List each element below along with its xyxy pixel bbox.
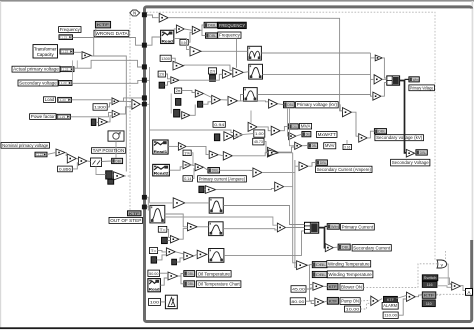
wire apv to grp5 bbox=[150, 130, 234, 133]
wire 0.94 to mult bbox=[188, 32, 192, 42]
wire tunnel t1 bbox=[147, 197, 150, 210]
wire wt tri out bbox=[307, 264, 312, 267]
multiply npv 1 bbox=[56, 149, 65, 156]
wire 2pi col down bbox=[170, 94, 172, 114]
wire pc tag out bbox=[220, 169, 253, 171]
wire converter vertical bbox=[370, 53, 372, 96]
svg-text:Primary current (Ampere): Primary current (Ampere) bbox=[199, 176, 246, 181]
winding temp tri bbox=[297, 261, 308, 270]
svg-text:DBL: DBL bbox=[209, 34, 216, 38]
label Oil Temperature bbox=[196, 271, 231, 277]
wire read chain down bbox=[149, 67, 151, 203]
local variable FREQUENCY inverted label bbox=[218, 22, 247, 28]
wire 45 to comp bbox=[306, 288, 313, 289]
svg-text:Secondary voltage (kV): Secondary voltage (kV) bbox=[376, 135, 423, 140]
wire increment long run bbox=[168, 18, 342, 111]
svg-text:1300: 1300 bbox=[94, 105, 107, 110]
local variable Oil Temperature Chart tag bbox=[184, 281, 195, 287]
comparator frequency check bbox=[82, 52, 91, 59]
constant dark t2 bbox=[151, 257, 157, 263]
constant f g bbox=[214, 134, 219, 141]
or alarm tri bbox=[371, 296, 379, 306]
constant 0.94 top bbox=[180, 39, 188, 45]
local variable MxWATT tag bbox=[302, 132, 311, 137]
wire 3.16 up bbox=[346, 140, 348, 144]
wire sec current in bbox=[295, 165, 299, 167]
svg-text:DBL: DBL bbox=[292, 125, 297, 129]
svg-text:Primary Current: Primary Current bbox=[342, 224, 374, 229]
indicator Secondary Current tag bbox=[338, 244, 350, 250]
constant 1.00 bbox=[254, 130, 265, 137]
label OUT OF STEP bbox=[109, 217, 143, 223]
wire switch to comp bbox=[438, 278, 452, 284]
local variable Switch ON bbox=[422, 275, 438, 281]
svg-text:Pump ON: Pump ON bbox=[341, 299, 359, 304]
waveform chart 3 bbox=[244, 88, 258, 102]
svg-text:DBL: DBL bbox=[316, 263, 326, 267]
svg-text:80.00: 80.00 bbox=[291, 300, 304, 304]
wire tri7 out bbox=[279, 152, 293, 154]
wire secondary voltage bbox=[72, 80, 143, 83]
wire comp2 to tag bbox=[324, 301, 327, 302]
wire pv mult to var bbox=[278, 104, 284, 105]
wire 1300 chain bbox=[171, 58, 175, 63]
multiply grp2 5 bbox=[224, 132, 234, 141]
multiply freq 2 bbox=[192, 26, 200, 34]
wire mult to FREQUENCY bbox=[200, 25, 204, 30]
svg-text:DBL: DBL bbox=[342, 246, 350, 250]
svg-text:N: N bbox=[133, 11, 136, 16]
svg-text:2π: 2π bbox=[159, 73, 164, 77]
current tri 6 bbox=[253, 168, 262, 177]
constant 110 dark bbox=[422, 300, 435, 307]
constant dark t3 bbox=[172, 259, 177, 265]
wire mva c1 bbox=[257, 127, 271, 131]
svg-text:1300: 1300 bbox=[161, 56, 170, 61]
wire bundle2 thick bbox=[319, 228, 326, 248]
wire tri3 to tag bbox=[204, 167, 208, 170]
wire tri4 out bbox=[278, 147, 295, 152]
wire mva tri3 out bbox=[280, 126, 288, 130]
svg-text:DBL: DBL bbox=[188, 282, 194, 286]
oil temp tri bbox=[168, 272, 178, 280]
increment box bbox=[106, 171, 113, 179]
svg-text:FREQUENCY: FREQUENCY bbox=[219, 23, 246, 28]
wire T= a bbox=[167, 229, 171, 237]
svg-text:A: A bbox=[468, 290, 471, 295]
local variable FREQUENCY tag bbox=[204, 22, 217, 28]
local variable Pump KTF tag bbox=[327, 297, 338, 304]
tunnel powe factor bbox=[142, 95, 147, 100]
wire 1.00 feed bbox=[243, 134, 254, 135]
wire 2pi mult to c2 bbox=[179, 74, 222, 80]
wire conv top out bbox=[382, 58, 387, 78]
wire i to increment bbox=[147, 15, 159, 18]
label Primary voltage kV bbox=[296, 102, 339, 108]
wire tri4 to tri5 bbox=[218, 155, 223, 156]
svg-text:1.23: 1.23 bbox=[61, 35, 67, 39]
svg-text:KTF: KTF bbox=[129, 211, 140, 216]
svg-text:2π: 2π bbox=[210, 69, 216, 73]
indicator Primary Voltage tag bbox=[409, 77, 419, 82]
control terminal Transformer Capacity bbox=[60, 49, 74, 54]
wire sec current tag bbox=[308, 163, 316, 167]
wire bundle tri out bbox=[286, 227, 305, 229]
mxwatt tri bbox=[295, 142, 302, 149]
svg-text:MVAr: MVAr bbox=[325, 143, 335, 148]
big multiply to tunnel bbox=[132, 99, 140, 109]
wire tri8 out bbox=[284, 186, 293, 188]
temp big tri bbox=[173, 198, 185, 208]
wire npv chain 1 bbox=[65, 153, 67, 156]
label WRONG DATA bbox=[94, 30, 129, 36]
bundle currents bbox=[305, 222, 319, 233]
wire load branch to tunnel bbox=[119, 98, 143, 101]
svg-text:Oil Temperature Chart: Oil Temperature Chart bbox=[198, 282, 241, 287]
svg-text:1.23: 1.23 bbox=[61, 81, 67, 85]
wire grp2 tri4 bbox=[190, 105, 195, 116]
label Frequency bbox=[59, 27, 81, 33]
label TAP POSITION bbox=[92, 148, 126, 154]
chart1 feed tri bbox=[190, 47, 201, 57]
wire temp tri5 to c7 bbox=[207, 253, 209, 255]
wire sec voltage to tag bbox=[367, 131, 374, 138]
label Frequency loop bbox=[218, 32, 241, 38]
svg-text:10.00: 10.00 bbox=[346, 308, 360, 312]
wire pf multiply out bbox=[120, 107, 132, 114]
primary voltage multiply bbox=[269, 99, 278, 108]
wire transformer capacity bbox=[74, 51, 83, 53]
wire 1300 to multiply bbox=[107, 103, 112, 107]
wire dark t1 bbox=[167, 240, 170, 242]
svg-text:Capacity: Capacity bbox=[37, 52, 55, 57]
current tri 5 bbox=[223, 152, 232, 160]
current tri 2 bbox=[183, 161, 191, 169]
svg-text:Transformer: Transformer bbox=[34, 46, 57, 51]
wire 45.73 to tri bbox=[264, 142, 267, 153]
wire read to multiply bbox=[174, 28, 177, 30]
wire c7 out bbox=[224, 231, 305, 256]
constant 2pi b bbox=[208, 68, 216, 74]
wire read to chart1tri bbox=[174, 39, 190, 50]
wire grp2 to c3 bbox=[238, 95, 244, 101]
right window edge bbox=[472, 1, 474, 241]
label Primary Voltage bbox=[409, 85, 435, 91]
wire freq tunnel to read bbox=[147, 37, 161, 45]
wire comp to A bbox=[460, 285, 465, 290]
wire f const a bbox=[165, 82, 171, 86]
label Primary current Ampere bbox=[198, 176, 247, 182]
svg-text:3.16: 3.16 bbox=[344, 146, 350, 150]
svg-text:Nominal primacy voltage: Nominal primacy voltage bbox=[2, 143, 49, 148]
svg-text:KTF: KTF bbox=[97, 22, 110, 27]
wire npv chain 3 bbox=[87, 160, 91, 163]
wire tri to ktf right bbox=[415, 295, 422, 297]
svg-text:Actual primary voltage: Actual primary voltage bbox=[13, 67, 59, 72]
constant f c bbox=[176, 99, 181, 106]
mva tri bbox=[289, 133, 296, 140]
svg-text:45.00: 45.00 bbox=[292, 287, 305, 291]
local variable Primary current tag bbox=[208, 168, 220, 174]
svg-text:Frequency: Frequency bbox=[219, 33, 241, 38]
wire pf const bbox=[96, 121, 99, 123]
svg-text:KTF: KTF bbox=[424, 293, 435, 298]
constant 2pi c bbox=[174, 88, 181, 93]
label Secondary Voltage bbox=[391, 159, 430, 166]
indicator A box bbox=[466, 289, 473, 296]
constant 116 dark bbox=[422, 281, 437, 287]
wire temp tri2 to c6 bbox=[197, 226, 208, 228]
constant f b bbox=[210, 75, 216, 82]
top window edge bbox=[0, 0, 474, 2]
wire comp1 to tag bbox=[323, 285, 327, 287]
secondary current tri bbox=[299, 162, 308, 171]
wire 0.14 up bbox=[193, 169, 196, 179]
svg-text:Read: Read bbox=[149, 288, 160, 292]
wire temp tri4 out bbox=[194, 254, 198, 256]
wire to pv multiply bbox=[241, 100, 269, 103]
wire c5 out bbox=[165, 214, 188, 227]
wire tunnel t2 bbox=[147, 206, 150, 208]
svg-text:110: 110 bbox=[426, 302, 432, 306]
wire frequency branch down bbox=[93, 38, 95, 57]
control terminal Nominal primacy voltage bbox=[35, 152, 47, 157]
label Pump ON bbox=[340, 298, 360, 305]
svg-text:Powe factor: Powe factor bbox=[31, 114, 56, 119]
label Secondary voltage bbox=[18, 80, 58, 86]
constant 45.73 bbox=[253, 138, 264, 145]
local variable Secondary Current tag bbox=[316, 160, 327, 165]
wire temp tri1 out bbox=[179, 229, 188, 240]
wire freq down to c1 tri bbox=[236, 38, 238, 68]
constant 2pi a bbox=[158, 71, 165, 77]
svg-text:Wfm: Wfm bbox=[331, 225, 339, 229]
wire c1 tri bbox=[201, 50, 248, 52]
wire tunnel sv stub bbox=[147, 79, 150, 81]
wire bundle2 to tag bbox=[325, 225, 328, 227]
wire alarm to tri bbox=[396, 295, 406, 298]
svg-text:DBL: DBL bbox=[212, 169, 219, 173]
svg-text:Winding Temperature: Winding Temperature bbox=[328, 261, 370, 266]
label Secondary Current bbox=[352, 245, 391, 251]
wire T= b bbox=[158, 251, 167, 252]
wire grp2 chain 3 bbox=[221, 99, 228, 101]
svg-text:KTF: KTF bbox=[329, 284, 337, 289]
alarm compare tri bbox=[407, 292, 416, 301]
wire frequency to loop bbox=[73, 38, 144, 46]
mva cluster tri 1 bbox=[248, 122, 257, 131]
or gate bbox=[437, 260, 447, 268]
wire or to alarm bbox=[378, 299, 382, 301]
tunnel temp 1 bbox=[142, 195, 147, 200]
svg-text:DBL: DBL bbox=[115, 159, 122, 163]
current tri 8 bbox=[275, 182, 284, 191]
wire 2pi chain a bbox=[165, 74, 170, 79]
control terminal Actual primary voltage bbox=[60, 67, 74, 72]
label Winding Temperature 2 bbox=[327, 271, 373, 278]
wire conv stub mid bbox=[371, 78, 375, 80]
wire boolean out-of-step vertical bbox=[129, 176, 131, 213]
bundle feed tri bbox=[277, 223, 285, 232]
svg-text:Wfm: Wfm bbox=[413, 78, 419, 82]
current tri 1 bbox=[178, 143, 186, 151]
wire comparator out bbox=[91, 56, 126, 172]
secondary voltage multiply bbox=[359, 134, 368, 142]
control terminal Frequency bbox=[59, 35, 73, 40]
svg-text:MxWATT: MxWATT bbox=[318, 132, 337, 137]
constant 0.94 mid bbox=[213, 122, 225, 128]
svg-text:DBL: DBL bbox=[287, 103, 293, 107]
svg-text:1.23: 1.23 bbox=[63, 67, 69, 71]
svg-text:1%: 1% bbox=[184, 151, 190, 155]
wire powe factor bbox=[70, 113, 112, 117]
svg-text:100: 100 bbox=[150, 300, 159, 304]
temp tri 5 bbox=[197, 250, 207, 259]
wire mva down 2 bbox=[290, 108, 295, 146]
wire vertical pair b bbox=[295, 160, 297, 267]
wire temp tri3 out bbox=[175, 252, 184, 254]
out of step comparator bbox=[114, 172, 125, 180]
loop count terminal N bbox=[130, 10, 140, 16]
svg-text:1.23: 1.23 bbox=[60, 98, 66, 102]
svg-text:Switch: Switch bbox=[424, 276, 437, 280]
svg-text:Read2: Read2 bbox=[154, 172, 169, 176]
multiply grp2 2 bbox=[212, 95, 221, 104]
wire oil tri out bbox=[178, 274, 184, 277]
control terminal Load bbox=[58, 97, 72, 102]
svg-text:Secondary Current: Secondary Current bbox=[353, 245, 391, 250]
svg-text:Secondary Voltage: Secondary Voltage bbox=[392, 160, 429, 165]
wire boolean stub above or bbox=[445, 251, 447, 260]
multiply powe factor bbox=[112, 110, 120, 117]
wire dark h bbox=[204, 188, 205, 190]
indicator Primary Current tag bbox=[327, 224, 339, 230]
svg-text:110.00: 110.00 bbox=[384, 314, 397, 318]
multiply load bbox=[112, 98, 119, 105]
wire load bbox=[72, 99, 113, 101]
stop compare tri bbox=[452, 282, 461, 290]
current tri 3 bbox=[195, 164, 203, 171]
constant T= a bbox=[158, 226, 167, 232]
indicator KTF WRONG DATA bbox=[95, 21, 110, 28]
control terminal Secondary voltage bbox=[59, 81, 73, 86]
wire c4 out bbox=[223, 206, 304, 225]
svg-text:Read: Read bbox=[162, 39, 173, 43]
constant small pf bbox=[91, 119, 96, 126]
wire boolean to A bbox=[421, 293, 466, 295]
svg-text:1.23: 1.23 bbox=[59, 115, 65, 119]
current tri 7 bbox=[268, 150, 278, 156]
label Blower ON bbox=[340, 284, 363, 291]
svg-text:KTF: KTF bbox=[387, 298, 395, 302]
constant f a bbox=[159, 82, 165, 88]
svg-text:MVA: MVA bbox=[301, 124, 311, 129]
svg-text:DBL: DBL bbox=[208, 23, 217, 27]
control terminal Powe factor bbox=[57, 114, 70, 119]
constant 1 percent bbox=[183, 150, 191, 156]
multiply 1300 bbox=[173, 61, 184, 70]
wire mva to tag bbox=[296, 134, 302, 136]
wire chart1 out bbox=[261, 52, 370, 54]
svg-text:Secondary voltage: Secondary voltage bbox=[19, 81, 57, 86]
wire freq mult chain bbox=[184, 29, 192, 30]
constant T= b bbox=[149, 248, 157, 254]
wire pv var to x1000 bbox=[338, 105, 342, 111]
constant 45.00 bbox=[291, 286, 306, 293]
local variable TAP POSITION bbox=[112, 158, 123, 163]
wire load multiply out bbox=[119, 100, 132, 102]
wire or output bbox=[446, 264, 452, 285]
label MxWATT bbox=[316, 132, 337, 138]
converter mid bbox=[374, 75, 382, 84]
loop right border light overlay bbox=[470, 9, 474, 240]
constant 1300 left bbox=[93, 104, 107, 111]
tunnel actual primary voltage bbox=[142, 64, 147, 69]
wire grp2 chain 1 bbox=[182, 91, 196, 93]
wire 10.00 to or bbox=[361, 303, 371, 309]
wire dark t2 bbox=[157, 255, 167, 260]
local variable MVAr tag bbox=[308, 143, 318, 149]
svg-text:Load: Load bbox=[45, 97, 55, 102]
constant 10.00 bbox=[345, 306, 361, 312]
wire bundle thick bbox=[400, 81, 407, 153]
wire mxwatt to tag bbox=[302, 145, 308, 147]
waveform chart 5 bbox=[150, 205, 165, 223]
svg-text:TAP POSITION: TAP POSITION bbox=[93, 148, 125, 153]
wire mult row to c2 bbox=[184, 65, 233, 70]
comparator pump bbox=[315, 298, 324, 306]
wire tap to increment bbox=[96, 167, 106, 175]
waveform chart 7 bbox=[209, 249, 224, 263]
svg-text:KTF: KTF bbox=[329, 298, 338, 303]
wire tri6 out bbox=[262, 172, 295, 174]
increment i bbox=[159, 13, 168, 22]
svg-text:0.94: 0.94 bbox=[214, 123, 224, 127]
wire sv tri to tag bbox=[415, 151, 416, 154]
wire mid tri chain bbox=[232, 73, 233, 75]
temp tri 4 bbox=[184, 252, 194, 260]
wire wt branch bbox=[310, 265, 315, 301]
local variable Secondary voltage kV tag bbox=[374, 129, 386, 134]
wire grp2 chain 2 bbox=[204, 94, 212, 98]
constant 3.16 bbox=[343, 144, 352, 149]
wire dark t3 bbox=[177, 258, 184, 262]
constant dark h bbox=[199, 186, 204, 192]
converter bottom bbox=[373, 92, 381, 100]
wire boolean tri up to OR bbox=[418, 264, 437, 288]
local variable Winding Temperature tag 2 bbox=[312, 271, 327, 277]
wire mva down 1 bbox=[288, 108, 289, 136]
constant dark t1 bbox=[162, 237, 168, 243]
svg-text:DBL: DBL bbox=[320, 161, 327, 165]
label Secondary voltage kV bbox=[375, 135, 424, 141]
left window edge bbox=[0, 1, 1, 328]
waveform chart 6 bbox=[209, 222, 224, 236]
wire wrong data feed bbox=[95, 28, 97, 38]
svg-text:0.866: 0.866 bbox=[59, 166, 72, 171]
wire 0.866 up bbox=[72, 163, 78, 169]
wire y217 long bbox=[165, 217, 278, 225]
wire blower boolean bbox=[363, 287, 418, 289]
wire conv mid out bbox=[382, 78, 387, 80]
wire 110 to tri bbox=[398, 299, 406, 315]
svg-text:DBL: DBL bbox=[312, 144, 317, 148]
tunnel frequency bbox=[142, 43, 147, 48]
wire conv stub top bbox=[371, 57, 376, 59]
svg-text:Primary Voltage: Primary Voltage bbox=[410, 85, 434, 90]
svg-text:DBL: DBL bbox=[420, 151, 427, 155]
multiply npv 2 bbox=[67, 154, 76, 163]
